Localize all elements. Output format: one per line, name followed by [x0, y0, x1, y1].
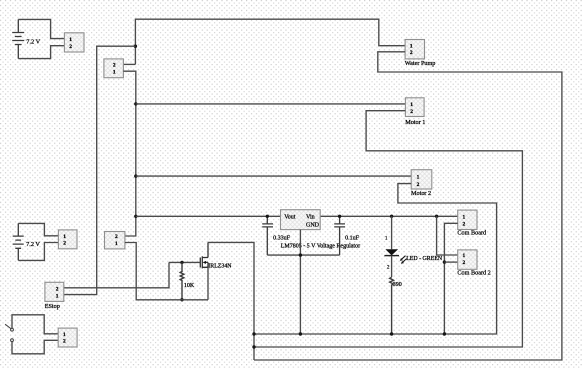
svg-text:2: 2: [56, 287, 59, 293]
label 0.33uF: [273, 235, 291, 241]
wire source lead: [207, 267, 209, 300]
capacitor C2 0.1uF: [334, 216, 345, 255]
node dot C2 top: [338, 215, 341, 218]
LED D1 GREEN: [384, 216, 399, 277]
svg-text:2: 2: [463, 221, 466, 227]
label Motor 1: [405, 119, 425, 126]
connector J6 EStop: [45, 282, 64, 301]
svg-text:Motor 1: Motor 1: [405, 119, 425, 126]
node dot C1 top: [266, 215, 269, 218]
svg-text:1: 1: [463, 253, 466, 259]
label 10K: [184, 283, 195, 289]
label LED - GREEN: [406, 256, 443, 262]
svg-text:1: 1: [410, 43, 413, 49]
wire com board pin2 down: [444, 223, 457, 334]
wire Vin side to Com Board pin1: [320, 215, 458, 217]
node dot bus-EStop branch: [134, 45, 137, 48]
wire water pump pin2 loop: [254, 52, 562, 360]
svg-text:0.1uF: 0.1uF: [345, 235, 360, 241]
wire GND lead: [299, 230, 301, 334]
label IRLZ34N: [208, 264, 232, 270]
LED pin label 1: [385, 237, 388, 242]
node dot com branch: [435, 215, 438, 218]
svg-text:1: 1: [113, 69, 116, 75]
connector J2: [104, 59, 124, 78]
label Com Board 2: [457, 269, 490, 276]
connector J10 Com Board: [458, 210, 477, 229]
label 390: [393, 282, 402, 288]
svg-text:2: 2: [63, 339, 66, 345]
wire com board2 pin2 stub: [444, 261, 457, 263]
svg-text:2: 2: [69, 44, 72, 50]
svg-text:1: 1: [56, 293, 59, 299]
node dot GND-capline: [299, 253, 302, 256]
wire gate lead: [169, 261, 200, 263]
node dot line1-drain: [252, 332, 255, 335]
label Com Board: [457, 230, 487, 237]
node dot LED top: [390, 215, 393, 218]
svg-text:Water Pump: Water Pump: [405, 60, 436, 67]
svg-text:0.33uF: 0.33uF: [273, 235, 291, 241]
svg-text:LED - GREEN: LED - GREEN: [406, 256, 443, 262]
wire switch bottom to J5 pin2: [12, 340, 58, 354]
label 0.1uF: [345, 235, 360, 241]
wire motor2 pin1: [136, 175, 411, 177]
label 7.2 V (B1): [26, 39, 40, 46]
svg-text:390: 390: [393, 282, 402, 288]
connector J11 Com Board 2: [458, 250, 477, 269]
svg-text:7.2 V: 7.2 V: [26, 39, 40, 46]
capacitor C1 0.33uF: [262, 216, 273, 255]
connector J9 Motor 2: [411, 170, 432, 189]
LED light arrows: [400, 256, 407, 264]
wire J2 pin2 stub: [123, 63, 135, 65]
wire top net A: [135, 19, 405, 64]
resistor R2 390: [390, 277, 394, 334]
svg-text:2: 2: [417, 182, 420, 188]
wire branch to EStop pin1: [64, 46, 136, 294]
node dot regulator branch: [134, 215, 137, 218]
label Motor 2: [411, 190, 431, 197]
wire motor1 pin2 loop: [254, 111, 522, 347]
wire cap bottoms: [267, 254, 339, 256]
svg-text:2: 2: [410, 50, 413, 56]
node dot 10K top: [180, 261, 183, 264]
svg-text:1: 1: [63, 234, 66, 240]
label Water Pump: [405, 60, 436, 67]
node dot motor1 branch: [134, 102, 137, 105]
transistor Q1 IRLZ34N: [200, 242, 208, 268]
svg-text:EStop: EStop: [45, 303, 60, 310]
wire switch top to J5 pin1: [12, 315, 58, 334]
node dot com2 pin2: [443, 260, 446, 263]
connector J7 Water Pump: [405, 40, 424, 59]
svg-text:10K: 10K: [184, 283, 195, 289]
label EStop: [45, 303, 60, 310]
LED pin label 2: [387, 265, 390, 270]
node dot motor2 branch: [134, 174, 137, 177]
svg-text:2: 2: [463, 260, 466, 266]
wire motor1 pin1: [136, 103, 406, 105]
svg-text:Vin: Vin: [306, 215, 315, 221]
node dot line1-com: [443, 332, 446, 335]
wire B1 top to J1 pin1: [18, 19, 64, 38]
node dot line1-GND: [299, 332, 302, 335]
wire regulator supply (Vout side): [136, 215, 281, 217]
svg-text:Com Board 2: Com Board 2: [457, 269, 490, 276]
svg-text:1: 1: [417, 174, 420, 180]
battery B1 7.2V: [12, 19, 24, 58]
wire EStop pin2 to gate riser: [64, 262, 169, 287]
svg-text:Com Board: Com Board: [457, 230, 487, 237]
wire J2 pin1 bus down: [123, 71, 135, 236]
Q1 arrow: [203, 261, 206, 264]
regulator U1 LM7805: [281, 210, 321, 230]
svg-text:LM7805 - 5 V Voltage Regulator: LM7805 - 5 V Voltage Regulator: [281, 243, 360, 249]
svg-text:1: 1: [410, 102, 413, 108]
switch SW1: [5, 324, 13, 341]
connector J4: [58, 230, 77, 249]
node dot 10K bottom: [180, 298, 183, 301]
resistor R1 10K: [180, 262, 184, 299]
label LM7805: [281, 243, 360, 249]
svg-text:1: 1: [115, 241, 118, 247]
connector J1: [64, 33, 84, 52]
label 7.2 V (B2): [26, 241, 40, 248]
svg-text:1: 1: [69, 37, 72, 43]
wire B2 bottom to J4 pin2: [18, 243, 58, 261]
svg-text:2: 2: [410, 109, 413, 115]
connector J3: [105, 232, 125, 249]
svg-text:2: 2: [113, 63, 116, 69]
node dot line1-390: [390, 332, 393, 335]
wire drain to bottom bus: [208, 242, 254, 360]
svg-text:7.2 V: 7.2 V: [26, 241, 40, 248]
wire B2 top to J4 pin1: [18, 223, 58, 235]
svg-text:GND: GND: [306, 222, 320, 228]
svg-text:1: 1: [463, 214, 466, 220]
node dot line2-drain: [252, 345, 255, 348]
svg-text:1: 1: [63, 332, 66, 338]
wire com board2 pin1 branch: [437, 216, 458, 255]
wire B1 bottom to J1 pin2: [18, 46, 64, 59]
svg-text:IRLZ34N: IRLZ34N: [208, 264, 232, 270]
svg-text:Vout: Vout: [284, 215, 296, 221]
wire motor2 pin2 loop: [254, 184, 497, 334]
svg-text:2: 2: [115, 234, 118, 240]
wire J3 pin1 to source line: [125, 243, 208, 300]
connector J5: [58, 328, 77, 347]
battery B2 7.2V: [13, 223, 24, 260]
svg-text:2: 2: [63, 241, 66, 247]
svg-text:Motor 2: Motor 2: [411, 190, 431, 197]
connector J8 Motor 1: [405, 98, 424, 117]
